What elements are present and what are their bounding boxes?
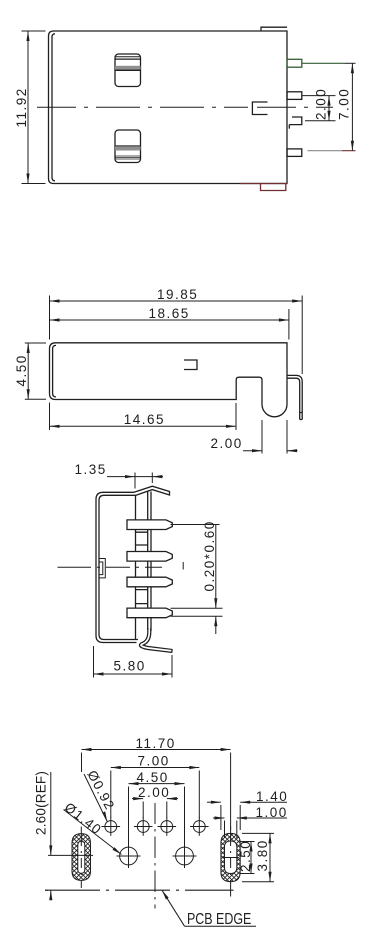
dimension 19.85 <box>50 296 303 375</box>
dimension 2.00 (view1) <box>327 96 330 121</box>
shell body outline (top view) <box>49 31 288 184</box>
svg-text:18.65: 18.65 <box>149 306 190 321</box>
contact carrier edge <box>150 492 152 632</box>
pin4 extension line (grey/dark-red) <box>308 150 342 152</box>
dimension 2.00 (view4) <box>132 797 178 818</box>
center line (view3) <box>58 566 163 568</box>
dimension 7.00 (view4) <box>111 766 200 818</box>
bottom mounting tab <box>261 184 286 191</box>
hole B2 (boss hole 1.40) <box>173 844 197 868</box>
pin 4 (top view) <box>287 149 302 157</box>
pin 1 (top view) <box>287 59 302 67</box>
svg-text:19.85: 19.85 <box>157 287 198 302</box>
shell bottom edge right portion (dark red) <box>240 183 287 185</box>
dimension 1.35 <box>107 473 163 489</box>
tongue left edge <box>135 496 137 640</box>
dimension 14.65 <box>50 403 237 431</box>
PCB EDGE label and leader <box>162 890 256 926</box>
svg-text:0.20*0.60: 0.20*0.60 <box>202 520 217 591</box>
bottom bent tab <box>141 628 172 653</box>
hole B1 (boss hole 1.40) <box>117 844 141 868</box>
center line (view1) <box>37 106 333 108</box>
right shield slot (hatched) <box>221 833 240 881</box>
hole A2 (pin hole 0.92) <box>134 817 153 836</box>
contact pin 4 (bar) <box>127 608 172 618</box>
dimension 4.50 (view4) <box>129 782 185 845</box>
hole A1 (pin hole 0.92) <box>102 817 121 836</box>
svg-text:11.70: 11.70 <box>136 736 176 751</box>
svg-text:7.00: 7.00 <box>337 88 352 120</box>
left slot centerlines <box>80 827 82 889</box>
dimension 11.92 <box>22 31 46 184</box>
svg-text:1.40: 1.40 <box>256 789 288 804</box>
SMT lead (side view) <box>288 375 303 419</box>
view4 vertical center line <box>154 803 156 909</box>
leader 0.92 <box>84 774 107 822</box>
leader 1.40 <box>64 810 122 855</box>
svg-text:2.00: 2.00 <box>211 436 243 451</box>
svg-text:2.00: 2.00 <box>314 88 329 120</box>
top bent tab <box>134 486 170 495</box>
dimension 4.50 <box>25 343 46 399</box>
side window feature (view3) <box>99 559 105 578</box>
pin3 extension line <box>305 120 336 122</box>
center bracket feature <box>252 102 267 115</box>
pin1 extension line (green) <box>302 62 345 64</box>
tongue rib gap1 <box>136 532 148 545</box>
svg-text:2.50: 2.50 <box>238 840 253 872</box>
svg-text:3.80: 3.80 <box>255 839 270 871</box>
svg-text:1.35: 1.35 <box>75 462 107 477</box>
dimension 11.70 <box>82 748 231 830</box>
hole A4 (pin hole 0.92) <box>190 817 209 836</box>
svg-text:14.65: 14.65 <box>124 412 165 427</box>
svg-text:5.80: 5.80 <box>114 659 146 674</box>
dimension 1.00 (view4) <box>213 816 287 838</box>
svg-text:11.92: 11.92 <box>14 87 29 127</box>
hole A3 (pin hole 0.92) <box>158 817 177 836</box>
contact pin 1 (bar) <box>127 520 172 530</box>
pin 3 (top view) <box>289 117 302 129</box>
dimension 7.00 (view1) <box>351 63 354 150</box>
PCB edge line <box>45 889 234 891</box>
svg-text:2.00: 2.00 <box>138 785 170 800</box>
dimension 0.20*0.60 <box>171 525 223 635</box>
contact pin 2 (bar) <box>127 552 172 562</box>
tongue right edge <box>147 491 149 631</box>
svg-text:7.00: 7.00 <box>138 754 170 769</box>
side body outline <box>50 343 288 417</box>
dimension 18.65 <box>50 309 289 340</box>
shell C-channel inner <box>99 495 138 639</box>
pin2 extension line <box>302 95 336 97</box>
contact pin 3 (bar) <box>127 577 172 587</box>
dimension 2.50 (view4) <box>241 842 255 874</box>
top mounting tab <box>261 27 287 31</box>
svg-text:1.00: 1.00 <box>256 805 288 820</box>
svg-text:4.50: 4.50 <box>14 354 29 386</box>
svg-text:2.60(REF): 2.60(REF) <box>34 771 49 835</box>
dimension 5.80 <box>94 646 173 678</box>
svg-text:PCB EDGE: PCB EDGE <box>187 911 251 928</box>
latch slot 1 <box>115 54 141 87</box>
pin 2 (top view) <box>287 92 302 100</box>
svg-text:4.50: 4.50 <box>137 770 169 785</box>
dimension 1.40 (view4) <box>207 801 287 830</box>
left shield slot (hatched) <box>72 834 91 881</box>
latch slot 2 <box>115 130 141 163</box>
center line tick <box>182 562 184 570</box>
dimension 3.80 (view4) <box>242 833 274 881</box>
shell C-channel outer <box>96 492 137 642</box>
small window on side body <box>184 360 197 370</box>
side left fold inner line <box>53 345 56 397</box>
dimension 2.60(REF) <box>45 772 93 900</box>
right slot centerlines <box>223 827 239 897</box>
tongue rib gap3 <box>136 590 148 604</box>
dimension 2.00 (view2) <box>243 420 298 454</box>
shell left fold inner line <box>52 34 55 181</box>
